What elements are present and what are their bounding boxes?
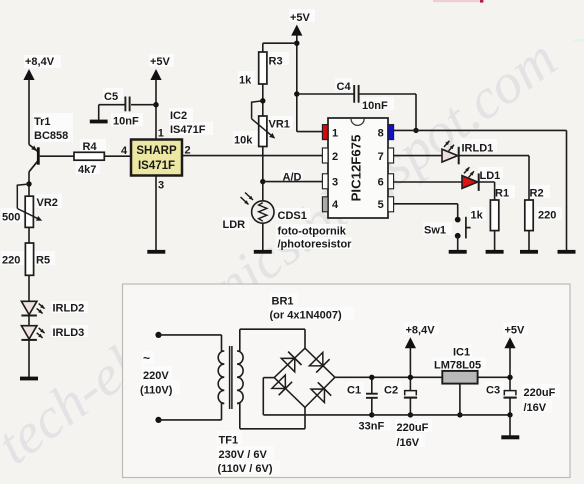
node A/D junction xyxy=(260,179,265,184)
diode bridge bottom-right xyxy=(311,389,325,403)
wire C5 left to ground xyxy=(99,104,126,106)
svg-text:BC858: BC858 xyxy=(34,130,68,142)
photoresistor CDS1 xyxy=(252,201,274,223)
svg-text:IS471F: IS471F xyxy=(138,160,175,172)
ground left rail xyxy=(20,377,38,381)
svg-text:CDS1: CDS1 xyxy=(278,210,307,222)
wire C3 to ground xyxy=(509,415,511,436)
pin 7 pad xyxy=(388,148,394,163)
wire collector down xyxy=(28,172,30,197)
svg-text:/photoresistor: /photoresistor xyxy=(278,239,353,251)
resistor R3 xyxy=(259,52,267,84)
node C4 branch xyxy=(294,91,299,96)
svg-text:220: 220 xyxy=(538,210,556,222)
wire +5V to pin1 xyxy=(297,131,323,133)
LED IRLD1 xyxy=(442,149,458,162)
svg-text:VR2: VR2 xyxy=(37,197,58,209)
resistor R2 xyxy=(525,200,533,231)
resistor R4 xyxy=(74,152,104,160)
svg-text:4: 4 xyxy=(332,199,339,211)
wiper wire VR2 xyxy=(17,184,29,209)
svg-text:5: 5 xyxy=(378,199,384,211)
svg-text:3: 3 xyxy=(158,180,164,192)
capacitor C3 xyxy=(509,377,511,390)
wire A/D to PIC pin3 xyxy=(263,181,323,183)
wire to C4 xyxy=(297,93,354,95)
top edge pink artifact xyxy=(433,0,480,2)
svg-text:230V / 6V: 230V / 6V xyxy=(219,449,268,461)
supply +5V arrow psu xyxy=(504,337,515,348)
wire VR2 to R5 xyxy=(28,227,30,243)
power supply section box xyxy=(123,284,571,478)
wire R2 to ground xyxy=(528,231,530,250)
svg-text:2: 2 xyxy=(332,151,338,163)
pin 2 pad xyxy=(322,148,328,163)
wire pin5 to Sw1 xyxy=(394,203,458,205)
transformer TF1 secondary winding xyxy=(237,329,243,429)
wire IC1 out to C3 xyxy=(478,376,510,378)
svg-text:1k: 1k xyxy=(471,210,484,222)
svg-text:C1: C1 xyxy=(347,385,361,397)
svg-text:PIC12F675: PIC12F675 xyxy=(349,135,364,202)
svg-text:8: 8 xyxy=(378,127,384,139)
svg-text:IRLD1: IRLD1 xyxy=(462,143,494,155)
svg-text:C3: C3 xyxy=(486,385,500,397)
pin 6 pad xyxy=(388,174,394,189)
ground R2 xyxy=(520,250,538,254)
svg-text:+8,4V: +8,4V xyxy=(406,325,436,337)
wire R3 to VR1 xyxy=(262,84,264,116)
wire R5 to IRLD2 xyxy=(28,275,30,301)
IC U2 PIC12F675 body xyxy=(328,118,388,218)
svg-text:/16V: /16V xyxy=(524,402,547,414)
diode bridge bottom-left xyxy=(272,375,286,389)
wire pin6 to LD1 xyxy=(394,181,462,183)
op-amp U1 SHARP IS471F box xyxy=(131,140,182,176)
resistor R5 xyxy=(25,243,33,275)
node pin8 junction xyxy=(413,128,418,133)
pin 5 pad xyxy=(388,197,394,212)
supply +8,4V arrow xyxy=(23,69,34,80)
svg-text:10k: 10k xyxy=(234,135,253,147)
svg-text:1: 1 xyxy=(158,128,164,140)
pin 1 pad (red) xyxy=(322,125,328,140)
AC input terminal bottom xyxy=(155,417,161,423)
notch PIC xyxy=(351,119,364,126)
node collector junction xyxy=(26,181,31,186)
LED IRLD3 xyxy=(21,326,37,339)
ground R1 xyxy=(486,250,504,254)
svg-text:SHARP: SHARP xyxy=(136,145,177,157)
svg-text:3: 3 xyxy=(332,176,338,188)
wire right rail down xyxy=(566,130,568,250)
svg-text:A/D: A/D xyxy=(283,172,302,184)
AC input terminal top xyxy=(155,332,161,338)
svg-text:1: 1 xyxy=(332,127,338,139)
svg-text:(110V): (110V) xyxy=(140,385,173,397)
switch Sw1 xyxy=(455,217,461,223)
transformer core xyxy=(229,346,231,409)
pin 8 pad (blue) xyxy=(388,125,394,140)
svg-text:C5: C5 xyxy=(104,91,118,103)
svg-text:(110V / 6V): (110V / 6V) xyxy=(218,463,273,475)
svg-text:10nF: 10nF xyxy=(362,100,388,112)
svg-text:R2: R2 xyxy=(530,188,544,200)
wiper wire VR1 xyxy=(252,101,263,119)
wire R1 to ground xyxy=(494,231,496,250)
capacitor C5 xyxy=(124,97,126,112)
wire IRLD2 to IRLD3 xyxy=(28,316,30,326)
svg-text:/16V: /16V xyxy=(397,437,420,449)
potentiometer VR2 xyxy=(25,196,33,227)
capacitor C1 xyxy=(366,393,378,395)
cyan artifact right xyxy=(574,39,584,42)
svg-text:33nF: 33nF xyxy=(359,421,385,433)
pin 4 pad (gray) xyxy=(322,197,328,212)
node C5 junction xyxy=(153,102,158,107)
svg-text:IRLD3: IRLD3 xyxy=(53,327,85,339)
ground right rail xyxy=(558,250,576,254)
wire bottom rail mid xyxy=(372,414,510,416)
svg-text:VR1: VR1 xyxy=(269,119,290,131)
wire IRLD3 to ground xyxy=(28,340,30,377)
svg-text:+5V: +5V xyxy=(505,325,526,337)
svg-text:4: 4 xyxy=(121,145,128,157)
wire bridge right to top rail xyxy=(335,376,442,378)
svg-text:LDR: LDR xyxy=(223,219,246,231)
transistor Tr1 BC858 xyxy=(37,147,40,164)
label background patches xyxy=(24,55,61,68)
svg-text:R5: R5 xyxy=(36,255,50,267)
svg-text:+5V: +5V xyxy=(150,56,171,68)
node C1 bottom xyxy=(369,412,374,417)
svg-text:C4: C4 xyxy=(337,81,352,93)
transformer TF1 primary winding xyxy=(159,334,222,336)
supply +8,4V arrow psu xyxy=(405,337,416,348)
node C3 bottom xyxy=(507,412,512,417)
svg-text:500: 500 xyxy=(2,212,20,224)
resistor R1 xyxy=(490,200,498,231)
svg-text:TF1: TF1 xyxy=(219,435,239,447)
svg-text:IS471F: IS471F xyxy=(170,124,206,136)
svg-text:~: ~ xyxy=(143,351,150,365)
svg-text:4k7: 4k7 xyxy=(78,164,96,176)
node R3-VR1 junction xyxy=(260,98,265,103)
wire C5 right xyxy=(131,104,156,106)
svg-text:10nF: 10nF xyxy=(113,116,139,128)
node C3 top xyxy=(507,375,512,380)
svg-text:R3: R3 xyxy=(269,56,283,68)
wire IC1 middle pin xyxy=(459,384,461,415)
ground IC2 pin3 xyxy=(147,250,165,254)
node IC1 gnd xyxy=(457,412,462,417)
capacitor C4 xyxy=(353,85,355,103)
wire IRLD1 to R2 xyxy=(459,155,529,157)
capacitor C2 xyxy=(409,377,411,390)
potentiometer VR1 xyxy=(259,116,267,147)
diode bridge top-left xyxy=(281,358,295,372)
ground psu xyxy=(501,435,519,439)
svg-text:LD1: LD1 xyxy=(480,170,501,182)
wire pin7 to IRLD1 xyxy=(394,155,442,157)
svg-text:220uF: 220uF xyxy=(397,422,429,434)
wire pin3 to ground xyxy=(155,176,157,251)
svg-text:2: 2 xyxy=(185,145,191,157)
wire to R3 xyxy=(263,42,297,44)
svg-text:R4: R4 xyxy=(83,141,98,153)
svg-text:Sw1: Sw1 xyxy=(424,225,446,237)
node R3 branch xyxy=(294,41,299,46)
LED IRLD2 xyxy=(21,301,37,314)
svg-text:R1: R1 xyxy=(495,188,509,200)
svg-text:(or 4x1N4007): (or 4x1N4007) xyxy=(270,310,342,322)
wire base to R4 xyxy=(40,155,74,157)
ground LDR xyxy=(254,250,272,254)
LED LD1 xyxy=(462,176,478,189)
node C2 top xyxy=(408,375,413,380)
svg-text:foto-otpornik: foto-otpornik xyxy=(278,226,347,238)
svg-text:+5V: +5V xyxy=(290,12,311,24)
wire pin2 to PIC pin2 xyxy=(182,155,322,157)
svg-text:220V: 220V xyxy=(143,370,169,382)
svg-text:BR1: BR1 xyxy=(272,296,294,308)
svg-text:C2: C2 xyxy=(384,385,398,397)
wire VR1 to LDR xyxy=(262,147,264,202)
svg-text:LM78L05: LM78L05 xyxy=(434,360,481,372)
wire Sw1 to ground xyxy=(457,236,459,250)
svg-text:220uF: 220uF xyxy=(524,387,556,399)
svg-text:IRLD2: IRLD2 xyxy=(53,303,85,315)
wire LDR to ground xyxy=(262,223,264,250)
wire secondary bottom to bridge xyxy=(240,428,305,430)
node C1 top xyxy=(369,375,374,380)
diode bridge top-right xyxy=(309,352,323,366)
svg-text:Tr1: Tr1 xyxy=(34,116,51,128)
supply +5V arrow R3 xyxy=(291,25,302,36)
ground Sw1 xyxy=(449,250,467,254)
supply +5V arrow IC2 xyxy=(150,69,161,80)
node C2 bottom xyxy=(408,412,413,417)
pin 3 pad xyxy=(322,174,328,189)
ground C5 xyxy=(90,120,108,124)
svg-text:IC2: IC2 xyxy=(170,110,187,122)
wire LD1 to R1 xyxy=(479,181,495,183)
svg-text:+8,4V: +8,4V xyxy=(25,56,55,68)
svg-text:1k: 1k xyxy=(239,75,252,87)
wire C4 to pin8 rail xyxy=(359,93,416,95)
wire R4 to pin4 xyxy=(104,155,131,157)
svg-text:6: 6 xyxy=(378,176,384,188)
svg-text:IC1: IC1 xyxy=(453,347,470,359)
svg-text:7: 7 xyxy=(378,151,384,163)
wire bridge left to bottom rail xyxy=(263,377,274,379)
svg-text:220: 220 xyxy=(2,255,20,267)
wire secondary top to bridge xyxy=(240,328,305,330)
wire pin8 to right xyxy=(394,129,567,131)
bridge BR1 diamond xyxy=(305,348,335,377)
voltage regulator IC1 LM78L05 xyxy=(442,371,477,384)
